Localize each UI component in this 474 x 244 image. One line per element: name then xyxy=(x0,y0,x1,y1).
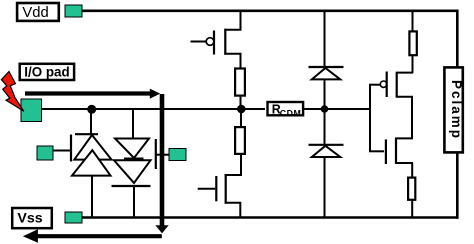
ESD zap lightning bolt xyxy=(1,72,23,112)
diode D4 (down, overlapping) xyxy=(114,160,151,183)
svg-text:Pclamp: Pclamp xyxy=(449,80,464,140)
Vss rail xyxy=(82,216,459,218)
diode D6 cathode bar xyxy=(309,144,344,146)
CDM current arrow vertical xyxy=(160,94,165,226)
svg-text:CDM: CDM xyxy=(280,108,302,118)
wire resistor to node B xyxy=(240,97,242,109)
wire NMOS source to Vss rail xyxy=(239,203,241,218)
right well electrode bar xyxy=(155,139,157,169)
wire resistor to M3 source xyxy=(412,56,414,73)
wire M4 source to lower resistor xyxy=(411,163,413,177)
diode D5 cathode bar xyxy=(309,66,344,68)
svg-text:Vdd: Vdd xyxy=(22,5,48,21)
CDM arrowhead right xyxy=(150,89,160,99)
wire left pad to electrode xyxy=(53,150,70,152)
Vss pin pad xyxy=(65,212,82,223)
resistor RCDM xyxy=(268,102,304,118)
wire left stack to Vss rail xyxy=(91,176,93,218)
receiver PMOS M3 xyxy=(369,72,413,98)
diode D5 (up to Vdd) xyxy=(312,68,341,79)
driver PMOS M1 xyxy=(191,29,242,55)
svg-text:Vss: Vss xyxy=(17,211,42,227)
I/O pad xyxy=(21,99,42,122)
diode D3 (down) xyxy=(115,139,149,159)
wire pad node to left diode stack xyxy=(90,109,92,134)
right monitor pad xyxy=(169,149,186,161)
Vdd rail xyxy=(82,10,459,13)
svg-text:I/O pad: I/O pad xyxy=(24,65,69,80)
resistor R4 (inverter bottom) xyxy=(408,178,415,200)
CDM arrowhead left xyxy=(23,229,38,243)
CDM current arrow horizontal top xyxy=(25,91,151,95)
Vdd pin pad xyxy=(65,5,82,17)
diode D6 (up from Vss) xyxy=(312,146,341,157)
diode D1 cathode bar xyxy=(75,133,98,135)
wire node B to lower resistor xyxy=(240,109,242,127)
diode D2 (up, overlapping) xyxy=(72,150,111,175)
wire PMOS drain to resistor xyxy=(240,54,242,68)
I/O pad label xyxy=(20,64,74,80)
resistor Rn (driver bottom) xyxy=(235,127,245,154)
wire right monitor pad to electrode xyxy=(156,154,169,156)
wire D6 anode to Vss rail xyxy=(324,157,326,218)
Vdd label xyxy=(17,3,59,21)
node A junction dot (pad node) xyxy=(87,105,96,114)
node C junction dot (after RCDM) xyxy=(321,105,329,113)
receiver NMOS M4 xyxy=(369,138,413,164)
wire Vdd rail to driver PMOS xyxy=(240,11,242,30)
wire right stack to Vss rail xyxy=(133,186,135,218)
wire resistor to Vss rail xyxy=(411,201,413,218)
wire RCDM to inverter input xyxy=(304,108,370,110)
power clamp Pclamp xyxy=(444,67,464,152)
wire D5 anode to node C xyxy=(324,79,326,145)
I/O wire from pad to RCDM xyxy=(42,108,266,110)
resistor Rp (driver top) xyxy=(235,69,245,96)
diode D3 cathode bar xyxy=(124,158,144,160)
resistor R3 (inverter top) xyxy=(409,31,416,55)
wire Vdd rail to pull-up resistor xyxy=(412,11,414,31)
wire M3 drain to M4 drain xyxy=(411,97,413,139)
wire resistor to NMOS drain xyxy=(240,155,242,175)
CDM arrowhead down xyxy=(155,225,168,233)
left well electrode bar xyxy=(70,135,72,162)
wire Vdd rail to diode D5 xyxy=(324,11,326,67)
wire Vdd rail to Pclamp xyxy=(456,10,459,67)
Vss label xyxy=(12,208,52,228)
diode D1 (up) xyxy=(74,135,111,160)
diode D4 cathode bar xyxy=(112,185,151,187)
left monitor pad xyxy=(37,146,53,160)
wire I/O line to right diode stack xyxy=(132,109,134,139)
wire Pclamp to Vss rail xyxy=(456,153,459,219)
inverter input tee xyxy=(369,85,371,152)
node B junction dot (driver node) xyxy=(237,105,246,114)
CDM current arrow horizontal bottom xyxy=(38,234,162,238)
driver NMOS M2 xyxy=(198,174,242,204)
